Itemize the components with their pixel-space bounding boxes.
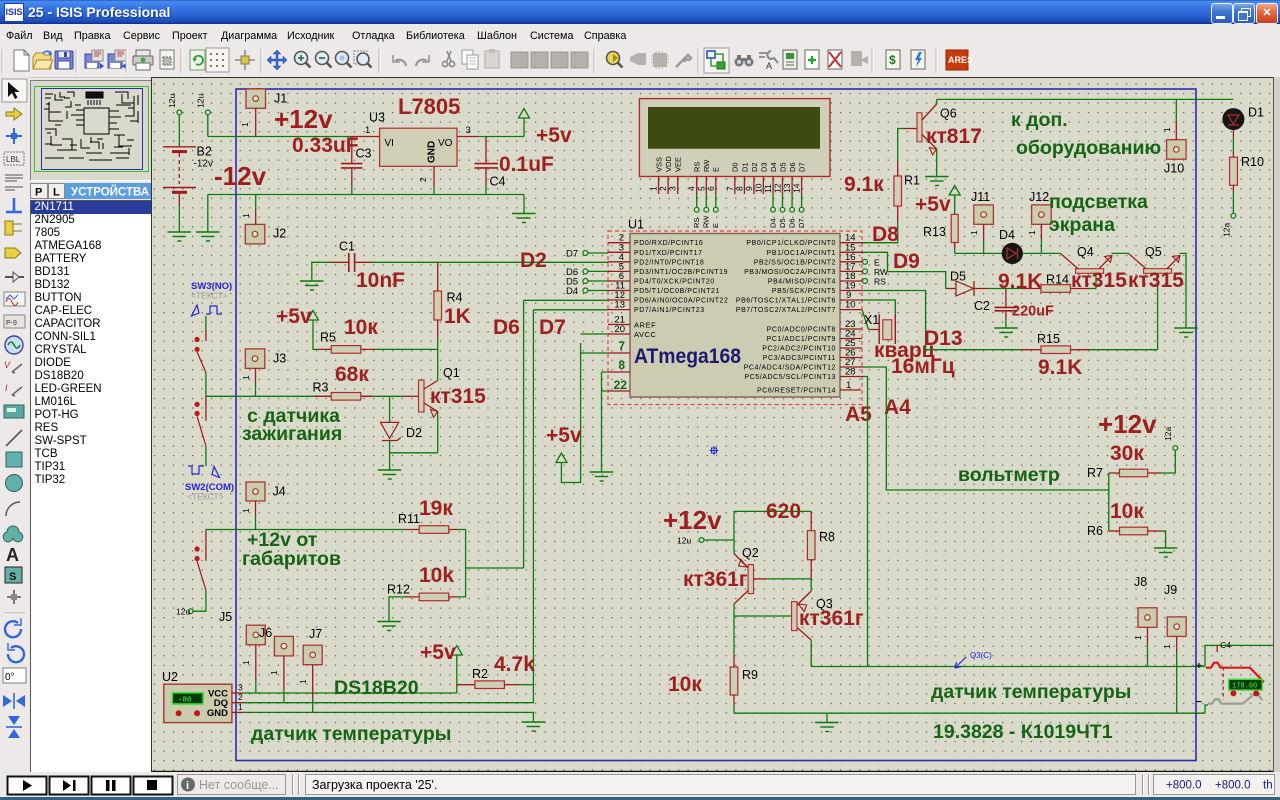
- terminal 12a (voltmeter): [1161, 427, 1178, 473]
- wire lights rail: [206, 529, 405, 531]
- svg-text:Q6: Q6: [940, 107, 957, 121]
- capacitor C3: [341, 137, 372, 195]
- svg-text:кт817: кт817: [926, 125, 982, 148]
- 2D box: [6, 452, 22, 467]
- wire C1 to PD2: [372, 261, 608, 263]
- wire R5 to R4/Q1 node: [375, 348, 438, 350]
- svg-text:R5: R5: [320, 331, 336, 345]
- pin U2.2 DQ: [232, 692, 534, 703]
- svg-text:-12v: -12v: [194, 159, 213, 170]
- svg-text:7: 7: [725, 186, 735, 191]
- svg-text:PD0/RXD/PCINT16: PD0/RXD/PCINT16: [634, 240, 703, 247]
- svg-text:D4: D4: [769, 162, 778, 172]
- new doc: [14, 50, 29, 71]
- wire ground rail: [734, 712, 1205, 714]
- svg-text:датчик температуры: датчик температуры: [931, 681, 1131, 703]
- svg-text:22: 22: [614, 378, 628, 392]
- svg-text:AVCC: AVCC: [634, 330, 657, 339]
- ground (rail end): [512, 195, 536, 223]
- wire backlight rail: [955, 252, 1002, 254]
- svg-text:+800.0: +800.0: [1215, 780, 1251, 792]
- ARES: [946, 50, 973, 70]
- svg-text:PD1/TXD/PCINT17: PD1/TXD/PCINT17: [634, 250, 703, 257]
- svg-text:Q2: Q2: [742, 546, 759, 560]
- wire Q3 collector rail: [811, 666, 1205, 668]
- ground (C2): [994, 328, 1018, 337]
- svg-text:X1: X1: [864, 313, 879, 327]
- terminal RS: [863, 277, 887, 287]
- wire AVCC: [581, 333, 608, 335]
- svg-text:0.33uF: 0.33uF: [292, 134, 359, 157]
- svg-text:D5: D5: [778, 162, 787, 172]
- svg-text:PC4/ADC4/SDA/PCINT12: PC4/ADC4/SDA/PCINT12: [744, 365, 836, 372]
- instrument: [4, 405, 24, 418]
- svg-text:AREF: AREF: [634, 321, 656, 330]
- svg-text:VO: VO: [438, 138, 453, 149]
- terminal D5: [566, 277, 608, 288]
- svg-text:RS: RS: [693, 162, 702, 172]
- ground (MCU): [590, 472, 614, 481]
- rotate cw: [5, 621, 21, 637]
- wire PC4 to voltmeter: [862, 367, 1109, 490]
- marker: [7, 590, 21, 604]
- ground (D2): [378, 470, 402, 479]
- svg-text:+12v: +12v: [274, 104, 333, 134]
- svg-text:R7: R7: [1087, 466, 1103, 480]
- svg-text:PD6/AIN0/OC0A/PCINT22: PD6/AIN0/OC0A/PCINT22: [634, 298, 728, 305]
- svg-text:PB7/TOSC2/XTAL2/PCINT7: PB7/TOSC2/XTAL2/PCINT7: [736, 307, 836, 314]
- svg-text:0°: 0°: [5, 672, 15, 683]
- svg-text:9.1K: 9.1K: [1038, 356, 1082, 379]
- import section: [85, 50, 104, 69]
- terminal: [5, 248, 21, 258]
- transistor Q5 kt315: [1129, 245, 1186, 350]
- magnifier yellow: [607, 52, 623, 68]
- svg-text:R6: R6: [1087, 524, 1103, 538]
- terminal 12u (+12v feed): [196, 94, 211, 137]
- resistor R14: [1022, 273, 1096, 293]
- svg-text:3: 3: [668, 186, 678, 191]
- svg-text:2: 2: [418, 177, 428, 182]
- origin: [235, 50, 255, 70]
- svg-text:PC6/RESET/PCINT14: PC6/RESET/PCINT14: [757, 388, 836, 395]
- svg-text:B2: B2: [197, 145, 212, 159]
- resistor R15: [1022, 332, 1158, 354]
- svg-text:1: 1: [1027, 230, 1037, 235]
- svg-text:10к: 10к: [344, 316, 378, 339]
- ground (R12): [377, 597, 405, 631]
- P L device header: [30, 183, 151, 199]
- svg-text:D13: D13: [924, 327, 963, 350]
- terminal 12a (D1): [1222, 213, 1236, 237]
- svg-text:RS: RS: [692, 218, 701, 228]
- resistor R11: [398, 512, 458, 533]
- svg-text:1: 1: [241, 660, 251, 665]
- svg-text:A: A: [6, 545, 19, 565]
- svg-text:DS18B20: DS18B20: [334, 677, 419, 699]
- svg-text:PB3/MOSI/OC2A/PCINT3: PB3/MOSI/OC2A/PCINT3: [744, 269, 836, 276]
- print: [133, 50, 153, 70]
- svg-text:RW: RW: [702, 159, 711, 172]
- wire PD7 net vertical: [533, 310, 608, 704]
- binoculars: [735, 55, 754, 67]
- svg-text:R4: R4: [447, 291, 463, 305]
- LCD terminals D4-D7: [768, 194, 806, 228]
- wire R11 to R12 junction: [458, 530, 466, 597]
- svg-text:VDD: VDD: [664, 156, 673, 172]
- transistor Q6 kt817: [904, 99, 957, 176]
- wire R1 to Q6 base: [898, 129, 904, 163]
- svg-text:11: 11: [763, 184, 773, 193]
- svg-text:R10: R10: [1241, 155, 1264, 169]
- svg-text:Q5: Q5: [1145, 245, 1162, 259]
- svg-text:кт315: кт315: [1128, 269, 1184, 292]
- svg-text:1: 1: [969, 230, 979, 235]
- svg-text:Нет сообще...: Нет сообще...: [199, 778, 279, 792]
- wire autoroute pressed: [704, 48, 729, 73]
- svg-text:кт361г: кт361г: [683, 568, 748, 591]
- svg-text:D1: D1: [740, 162, 749, 172]
- BOM: [886, 50, 900, 69]
- svg-text:1: 1: [269, 670, 279, 675]
- remove sheet: [828, 50, 842, 69]
- label LBL: [4, 152, 24, 165]
- svg-text:D0: D0: [731, 162, 740, 172]
- svg-text:ATmega168: ATmega168: [634, 345, 741, 368]
- ground (Q6): [925, 177, 949, 186]
- svg-text:10k: 10k: [419, 564, 454, 587]
- svg-text:1: 1: [298, 679, 308, 684]
- svg-text:J8: J8: [1134, 575, 1147, 589]
- MCU left pin labels: [634, 240, 728, 339]
- LED D4: [999, 228, 1061, 264]
- ground (rail): [815, 713, 839, 731]
- LCD pin labels: [655, 156, 807, 172]
- svg-text:1: 1: [846, 380, 851, 391]
- pin U2.1 GND: [232, 702, 534, 722]
- 2D line: [6, 430, 22, 446]
- resistor R2: [457, 667, 534, 689]
- 2D path: [3, 526, 23, 542]
- svg-text:D4: D4: [566, 286, 578, 297]
- wire D5 to R14: [988, 288, 1022, 290]
- svg-text:R9: R9: [742, 668, 758, 682]
- svg-text:R1: R1: [904, 174, 920, 188]
- svg-text:экрана: экрана: [1049, 214, 1115, 236]
- svg-text:R12: R12: [387, 583, 410, 597]
- transistor Q2 kt361g: [734, 540, 766, 616]
- svg-text:1: 1: [241, 508, 251, 513]
- switch SW3: [191, 281, 232, 396]
- svg-text:J12: J12: [1029, 190, 1049, 204]
- resistor R7: [1087, 466, 1161, 480]
- svg-text:19.3828 - К1019ЧТ1: 19.3828 - К1019ЧТ1: [933, 721, 1113, 743]
- svg-text:PC5/ADC5/SCL/PCINT13: PC5/ADC5/SCL/PCINT13: [744, 374, 836, 381]
- schematic canvas: [151, 77, 1274, 772]
- mark doc: [160, 50, 174, 69]
- regulator U3 L7805: [369, 111, 457, 167]
- subcircuit: [5, 221, 13, 235]
- svg-text:1: 1: [1162, 644, 1172, 649]
- left mode toolbar: [0, 77, 29, 772]
- wire PB0 to R1: [862, 222, 898, 243]
- goto sheet greyed: [851, 51, 868, 66]
- pin U3.3: [457, 125, 478, 137]
- window title bar: [0, 0, 1280, 24]
- svg-text:PD3/INT1/OC2B/PCINT19: PD3/INT1/OC2B/PCINT19: [634, 269, 728, 276]
- connector J12: [1027, 190, 1051, 253]
- flip h: [13, 693, 15, 709]
- connector J2: [241, 195, 286, 244]
- svg-text:+5v: +5v: [536, 124, 572, 147]
- probe Q3(C): [955, 651, 992, 668]
- undo/redo greyed: [393, 55, 406, 66]
- svg-text:$: $: [889, 53, 896, 67]
- svg-text:D4: D4: [768, 218, 777, 228]
- resistor R1: [894, 162, 920, 222]
- svg-text:C4: C4: [1220, 640, 1231, 650]
- menu bar: [0, 24, 1280, 46]
- svg-text:+5v: +5v: [546, 424, 582, 447]
- connector J9: [1162, 583, 1186, 713]
- LCD LM016L body: [639, 99, 830, 177]
- svg-text:10nF: 10nF: [356, 269, 405, 292]
- wire -12v rail: [208, 194, 524, 196]
- svg-text:R11: R11: [398, 512, 420, 526]
- crystal X1: [862, 300, 895, 344]
- svg-text:D2: D2: [406, 426, 422, 440]
- LED D1: [1222, 106, 1264, 131]
- device pin: [5, 276, 24, 278]
- ground (U2 GND): [522, 722, 546, 731]
- tape: [4, 315, 25, 328]
- svg-text:R3: R3: [313, 381, 329, 395]
- svg-text:оборудованию: оборудованию: [1016, 137, 1161, 159]
- svg-text:19к: 19к: [419, 497, 453, 520]
- pin U3.1: [352, 125, 380, 137]
- svg-text:1: 1: [365, 125, 370, 136]
- wire C1 left to ground: [300, 262, 331, 290]
- svg-text:кт315: кт315: [430, 385, 486, 408]
- wire VCC pin7: [581, 352, 608, 354]
- svg-text:VEE: VEE: [674, 157, 683, 172]
- svg-text:+: +: [1196, 661, 1202, 672]
- svg-text:D2: D2: [750, 162, 759, 172]
- svg-text:PB0/ICP1/CLKO/PCINT0: PB0/ICP1/CLKO/PCINT0: [746, 240, 836, 247]
- svg-text:C4: C4: [490, 175, 506, 189]
- svg-text:1: 1: [1162, 127, 1172, 132]
- svg-text:D8: D8: [872, 223, 899, 246]
- connector J4: [241, 482, 286, 530]
- connector J11: [969, 190, 993, 253]
- svg-text:J3: J3: [273, 352, 286, 366]
- ground (battery): [168, 232, 192, 241]
- svg-text:D7: D7: [539, 316, 566, 339]
- connector J10: [1162, 99, 1186, 175]
- generator: [5, 336, 23, 354]
- wire GND pins 8,22: [602, 372, 609, 472]
- sheet border: [236, 89, 1196, 761]
- svg-text:-12v: -12v: [214, 161, 267, 191]
- MCU right pin labels: [736, 240, 836, 394]
- svg-text:8: 8: [734, 186, 744, 191]
- pin U3.2: [418, 166, 434, 194]
- svg-text:12a: 12a: [1163, 427, 1173, 441]
- svg-text:C2: C2: [974, 299, 990, 313]
- wire PB1 to D5: [862, 252, 947, 288]
- svg-text:I: I: [5, 383, 8, 393]
- svg-text:12u: 12u: [677, 536, 691, 546]
- terminal 12u (battery +): [167, 94, 182, 146]
- svg-text:A4: A4: [884, 396, 911, 419]
- svg-text:L7805: L7805: [398, 94, 460, 119]
- pin U2.3 VCC: [232, 683, 457, 694]
- property tool: [759, 51, 778, 71]
- resistor R6: [1087, 524, 1166, 548]
- graph: [4, 292, 25, 306]
- junction: [6, 128, 22, 144]
- sensor instrument: [1196, 640, 1277, 713]
- svg-text:U2: U2: [162, 670, 178, 684]
- capacitor C1: [331, 240, 372, 273]
- svg-text:PD2/INT0/PCINT18: PD2/INT0/PCINT18: [634, 259, 704, 266]
- switch SW2 lower contact: [193, 530, 206, 612]
- svg-text:D4: D4: [999, 228, 1015, 242]
- zener D2: [381, 396, 423, 469]
- svg-text:D7: D7: [566, 249, 578, 260]
- svg-text:PD5/T1/OC0B/PCINT21: PD5/T1/OC0B/PCINT21: [634, 288, 720, 295]
- svg-text:УСТРОЙСТВА: УСТРОЙСТВА: [71, 186, 149, 199]
- svg-text:вольтметр: вольтметр: [958, 464, 1060, 486]
- power +5v arrow: [519, 109, 530, 137]
- svg-text:13: 13: [782, 183, 792, 193]
- svg-text:Q3(C): Q3(C): [970, 651, 992, 660]
- separator: [4, 612, 25, 614]
- connector J3: [241, 349, 286, 396]
- svg-text:220uF: 220uF: [1012, 304, 1054, 320]
- connector J1: [240, 89, 287, 137]
- transistor Q4 kt315: [1061, 245, 1129, 289]
- svg-text:датчик температуры: датчик температуры: [251, 723, 451, 745]
- svg-text:<ТЕКСТ>: <ТЕКСТ>: [191, 291, 228, 301]
- svg-text:L: L: [53, 187, 60, 199]
- power +5v arrow (R5): [308, 311, 319, 350]
- open folder: [33, 51, 53, 69]
- svg-text:D7: D7: [798, 162, 807, 172]
- svg-text:1: 1: [241, 375, 251, 380]
- bus: [6, 198, 22, 212]
- svg-text:+5v: +5v: [420, 641, 456, 664]
- 2D circle: [6, 475, 23, 492]
- svg-text:9.1к: 9.1к: [844, 173, 884, 196]
- terminal 12u (lights): [176, 607, 193, 617]
- svg-text:габаритов: габаритов: [242, 548, 341, 570]
- svg-text:3: 3: [466, 125, 471, 136]
- angle box: [3, 668, 26, 683]
- svg-text:2: 2: [238, 692, 243, 702]
- svg-text:J10: J10: [1164, 162, 1184, 176]
- battery B2: [163, 147, 196, 232]
- connector J7: [298, 627, 322, 712]
- svg-text:PC3/ADC3/PCINT11: PC3/ADC3/PCINT11: [763, 355, 836, 362]
- svg-text:PB4/MISO/PCINT4: PB4/MISO/PCINT4: [768, 279, 836, 286]
- svg-text:C1: C1: [339, 240, 355, 254]
- zoom in/out/full/area: [295, 52, 311, 68]
- svg-text:S: S: [9, 571, 16, 583]
- wire Q3 base: [734, 615, 792, 617]
- resistor R5: [318, 331, 375, 354]
- terminal RW: [863, 267, 889, 277]
- svg-text:кт361г: кт361г: [799, 607, 864, 630]
- svg-text:th: th: [1263, 780, 1273, 792]
- svg-text:D1: D1: [1248, 106, 1264, 120]
- grid toggle pressed: [206, 48, 229, 72]
- svg-text:PB6/TOSC1/XTAL1/PCINT6: PB6/TOSC1/XTAL1/PCINT6: [736, 298, 836, 305]
- svg-text:4.7k: 4.7k: [494, 653, 535, 676]
- svg-text:RW: RW: [874, 267, 888, 277]
- svg-text:9.1K: 9.1K: [998, 270, 1042, 293]
- svg-text:12a: 12a: [1222, 223, 1232, 237]
- svg-text:179.00: 179.00: [1232, 683, 1257, 691]
- svg-text:PD7/AIN1/PCINT23: PD7/AIN1/PCINT23: [634, 307, 705, 314]
- svg-text:R8: R8: [819, 530, 835, 544]
- wire PD6 net vertical: [524, 300, 608, 568]
- svg-text:GND: GND: [427, 141, 438, 163]
- ERC: [911, 50, 925, 69]
- wire divider node: [1108, 473, 1110, 531]
- status bar: [0, 772, 1280, 797]
- svg-text:D6: D6: [493, 316, 520, 339]
- component mode: [6, 108, 22, 120]
- toolbar: [0, 45, 1280, 78]
- svg-text:10к: 10к: [1110, 500, 1144, 523]
- svg-text:28: 28: [845, 367, 856, 378]
- pan: [267, 50, 287, 70]
- resistor R10: [1230, 130, 1264, 213]
- svg-text:PC0/ADC0/PCINT8: PC0/ADC0/PCINT8: [767, 327, 836, 334]
- svg-text:20: 20: [614, 324, 625, 335]
- svg-text:PC1/ADC1/PCINT9: PC1/ADC1/PCINT9: [767, 336, 836, 343]
- svg-text:3: 3: [238, 683, 243, 693]
- svg-text:подсветка: подсветка: [1049, 191, 1148, 213]
- wire +12v rail: [208, 136, 352, 138]
- wire PB5 to R15: [862, 291, 1022, 350]
- MCU right pins: [840, 243, 862, 390]
- svg-text:J6: J6: [259, 626, 272, 640]
- transistor Q3 kt361g: [792, 579, 833, 667]
- svg-text:J9: J9: [1164, 583, 1177, 597]
- svg-text:PB1/OC1A/PCINT1: PB1/OC1A/PCINT1: [767, 250, 836, 257]
- svg-text:VSS: VSS: [655, 157, 664, 172]
- svg-text:12: 12: [773, 183, 783, 193]
- svg-text:+5v: +5v: [915, 193, 951, 216]
- svg-text:R15: R15: [1037, 332, 1060, 346]
- refresh: [190, 50, 205, 70]
- svg-text:10к: 10к: [668, 673, 702, 696]
- svg-text:GND: GND: [207, 708, 228, 719]
- wire PC5 down: [862, 377, 868, 667]
- wire Q1 emitter to D2: [390, 452, 438, 454]
- svg-text:1: 1: [241, 213, 251, 218]
- terminal D4: [566, 286, 608, 297]
- svg-text:Q4: Q4: [1077, 245, 1094, 259]
- terminal E: [863, 257, 881, 267]
- svg-text:D6: D6: [788, 218, 797, 228]
- svg-text:−: −: [1196, 697, 1202, 708]
- wire Q2 base to R8 bottom: [766, 578, 811, 580]
- svg-text:14: 14: [792, 183, 802, 193]
- symbol: [5, 567, 22, 583]
